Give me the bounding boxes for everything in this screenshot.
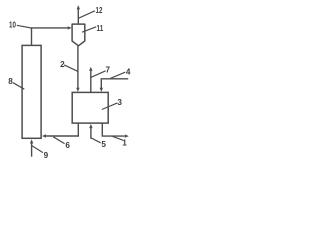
column 8 (tall distillation column)	[22, 45, 41, 138]
svg-text:9: 9	[44, 151, 49, 160]
wire stream 6 (box bottom to column bottom)	[42, 123, 78, 138]
svg-text:2: 2	[60, 60, 65, 69]
label 1	[112, 136, 127, 147]
svg-text:8: 8	[8, 77, 13, 86]
svg-text:1: 1	[122, 138, 127, 147]
label 6	[53, 137, 70, 150]
label 11	[82, 24, 104, 33]
reactor box 3	[72, 92, 108, 123]
svg-text:10: 10	[9, 21, 16, 30]
svg-text:3: 3	[117, 98, 122, 107]
label 10	[9, 21, 31, 30]
wire stream 7 (box top vent up)	[89, 67, 92, 93]
wire stream 2 (vessel bottom to box top)	[76, 46, 79, 92]
wire stream 12 (vessel overhead out top)	[77, 5, 80, 24]
svg-text:12: 12	[96, 6, 103, 15]
wire stream 5 (into box bottom, stub)	[89, 124, 92, 139]
label 8	[8, 77, 24, 89]
svg-text:7: 7	[106, 66, 111, 75]
label 2	[60, 60, 78, 71]
wire stream 1 (box bottom out right)	[102, 123, 129, 138]
svg-text:11: 11	[97, 24, 104, 33]
label 7	[91, 66, 110, 78]
label 12	[79, 6, 103, 18]
svg-text:4: 4	[126, 68, 131, 77]
wire stream 10 (column top to vessel)	[32, 26, 72, 45]
wire stream 9 (into column bottom, stub)	[30, 139, 33, 156]
svg-text:6: 6	[65, 141, 70, 150]
label 5	[91, 138, 107, 149]
label 9	[32, 146, 49, 160]
wire stream 4 (from right into box top)	[100, 79, 129, 92]
separator vessel 11	[72, 24, 85, 46]
svg-text:5: 5	[101, 140, 106, 149]
label 3	[102, 98, 123, 110]
label 4	[110, 68, 131, 79]
